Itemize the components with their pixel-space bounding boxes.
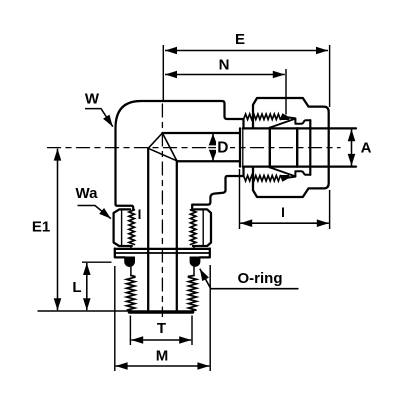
stud edge between body and locknut, right xyxy=(191,205,193,210)
dimension M arrow line xyxy=(116,365,210,367)
tube OD line, top xyxy=(243,127,356,129)
male thread runout filled wedge, bottom xyxy=(280,176,288,182)
dimension I arrow line (nut length) xyxy=(240,222,329,224)
svg-text:M: M xyxy=(156,348,169,365)
svg-text:O-ring: O-ring xyxy=(238,270,283,287)
extension line E1/L bottom at stud end xyxy=(38,310,130,312)
dimension D arrow line (bore) xyxy=(212,134,214,161)
washer top line xyxy=(115,248,210,250)
horizontal bore line, bottom (D) xyxy=(177,160,240,162)
extension line L top xyxy=(82,261,112,263)
vertical centerline (dash-dot) xyxy=(161,104,163,317)
stud bottom end chamfer (thick) xyxy=(129,310,192,313)
O-ring cross-section, right (filled) xyxy=(190,257,201,267)
svg-text:W: W xyxy=(85,91,100,108)
label D with mask xyxy=(216,140,230,154)
extension line E/N left at port centerline xyxy=(162,45,164,102)
extension line T right xyxy=(191,316,193,346)
dimension E arrow line xyxy=(165,50,328,52)
washer left end cap xyxy=(115,249,125,258)
locknut hex outline, left xyxy=(114,209,132,246)
horizontal centerline (dash-dot) xyxy=(48,147,341,149)
stud side above washer, right xyxy=(193,246,195,249)
male pipe thread zigzag, top xyxy=(244,114,281,120)
extension line N right xyxy=(285,69,287,115)
extension line I left at tube end xyxy=(239,169,241,229)
locknut hex corner line, right xyxy=(202,209,204,246)
washer right end cap xyxy=(200,249,210,258)
extension line T left xyxy=(129,316,131,346)
tube end face inner line xyxy=(242,128,244,166)
svg-text:T: T xyxy=(157,320,166,337)
elbow body bottom-right stepped outline xyxy=(192,167,243,205)
svg-text:A: A xyxy=(361,140,372,157)
stud side above washer, left xyxy=(130,246,132,249)
dimension A arrow line (tube OD) xyxy=(351,129,353,166)
svg-text:E: E xyxy=(235,31,245,48)
elbow body outline: left edge, W radius corner, top edge, step to male pipe end xyxy=(116,101,244,204)
elbow body bottom-left edge xyxy=(116,204,134,210)
svg-text:I: I xyxy=(138,207,142,222)
tube fitting nut outline xyxy=(253,98,329,197)
svg-text:Wa: Wa xyxy=(76,185,99,202)
svg-text:I: I xyxy=(281,205,285,220)
dimension E1 arrow line xyxy=(57,149,59,311)
back ferrule slant, bottom xyxy=(270,167,296,176)
back ferrule rear edge xyxy=(296,128,298,166)
stud neck below O-ring, right xyxy=(193,267,195,276)
horizontal bore line, top (D) xyxy=(162,132,240,134)
dimension T arrow line xyxy=(131,339,191,341)
male thread runout filled wedge, top xyxy=(280,114,288,120)
dimension N arrow line xyxy=(165,74,285,76)
back ferrule slant, top xyxy=(270,119,296,128)
leader arrow W xyxy=(85,109,113,127)
nut internal thread runout and step, top xyxy=(288,117,310,123)
male pipe thread zigzag, bottom xyxy=(244,176,281,182)
leader arrow Wa xyxy=(78,206,111,219)
stud thread zigzag in locknut, left xyxy=(129,210,135,245)
O-ring cross-section, left (filled) xyxy=(124,257,135,267)
nut internal thread runout and step, bottom xyxy=(288,171,310,177)
svg-text:L: L xyxy=(72,279,81,296)
leader arrow O-ring xyxy=(200,269,299,289)
tube end face in socket xyxy=(239,128,241,166)
washer bottom line xyxy=(115,252,210,254)
tube OD line, bottom xyxy=(243,165,356,167)
exposed stud thread zigzag, right xyxy=(189,276,197,311)
extension line E right at nut face xyxy=(329,45,331,107)
exposed stud thread zigzag, left xyxy=(127,276,135,311)
stud thread zigzag in locknut, right xyxy=(190,210,196,245)
nut internal shoulder xyxy=(309,120,311,175)
vertical bore line, right xyxy=(176,161,178,311)
svg-text:E1: E1 xyxy=(32,219,50,236)
dimension L arrow line xyxy=(86,263,88,310)
locknut hex outline, right xyxy=(193,209,211,246)
drill cone at elbow bore junction xyxy=(148,133,177,161)
extension line M right xyxy=(209,265,211,371)
extension line I right at nut face xyxy=(329,190,331,229)
extension line M left xyxy=(114,266,116,371)
svg-text:N: N xyxy=(219,57,230,74)
svg-text:D: D xyxy=(217,140,228,157)
stud neck below O-ring, left xyxy=(130,267,132,276)
front ferrule leading edge xyxy=(269,128,271,168)
vertical bore line, left xyxy=(147,148,149,310)
locknut hex corner line, left xyxy=(121,209,123,246)
